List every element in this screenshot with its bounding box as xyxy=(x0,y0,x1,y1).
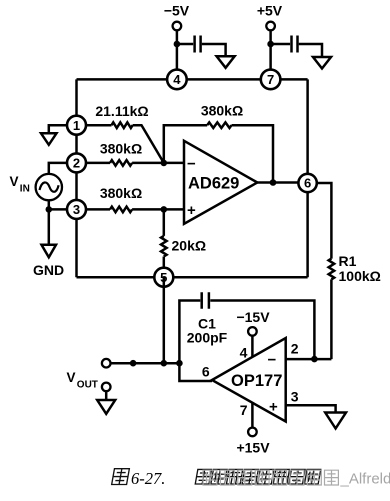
svg-text:+: + xyxy=(187,202,196,219)
ground: pin 1 reference xyxy=(41,133,57,145)
node: output junction dot xyxy=(270,179,277,186)
svg-text:−: − xyxy=(268,352,277,369)
svg-text:100kΩ: 100kΩ xyxy=(339,268,381,284)
svg-text:_Alfreld: _Alfreld xyxy=(340,471,390,488)
wire: pin 6 to R1 column xyxy=(308,183,332,259)
svg-text:OUT: OUT xyxy=(77,380,98,391)
ground: OP177 non-inverting input xyxy=(325,413,346,429)
svg-text:7: 7 xyxy=(267,72,274,87)
wire: junction to bypass cap C-a xyxy=(177,43,193,46)
wire: node B down to 20k xyxy=(163,209,166,236)
svg-text:7: 7 xyxy=(240,402,248,418)
wire: VIN bottom to GND and pin 3 xyxy=(49,200,77,245)
resistor 380k (input -) xyxy=(110,160,132,166)
terminal: probe ground circle xyxy=(102,383,111,392)
ground: +5V bypass xyxy=(313,57,331,69)
wire: VIN top to pin 2 xyxy=(49,163,77,174)
wire: C1 left leg xyxy=(179,301,200,364)
wire: 380k b to node B and op-amp plus input xyxy=(132,208,184,211)
svg-text:+5V: +5V xyxy=(257,3,283,19)
wire: 380k a to node A and op-amp minus input xyxy=(132,162,184,165)
caption figure number glyph xyxy=(112,469,130,485)
node: pin5 column joins VOUT xyxy=(161,360,168,367)
terminal: +5V xyxy=(266,22,275,31)
source VIN sine generator xyxy=(36,174,62,200)
terminal: -15V xyxy=(248,327,257,336)
wire: pin 5 down to VOUT node xyxy=(163,277,166,363)
svg-text:OP177: OP177 xyxy=(231,372,282,390)
resistor R1 xyxy=(329,259,335,280)
wire: feedback resistor to output node xyxy=(232,125,274,182)
svg-text:IN: IN xyxy=(20,184,30,195)
capacitor C1 xyxy=(202,292,209,308)
wire: pin 6 down to pin5 row xyxy=(306,183,309,277)
pin circle 6 xyxy=(298,174,316,192)
svg-text:+15V: +15V xyxy=(236,439,270,455)
wire: -5V terminal to pin 4 xyxy=(176,29,179,79)
wire: right column pin7 rail down to pin 6 xyxy=(306,79,309,183)
wire: bypass cap to ground xyxy=(299,44,322,57)
wire: top supply rail pin4-pin7 xyxy=(77,78,308,81)
wire: probe stem xyxy=(105,391,108,400)
svg-text:200pF: 200pF xyxy=(187,330,228,346)
wire: OP177 pin3 to ground xyxy=(286,405,336,412)
svg-text:3: 3 xyxy=(73,202,80,217)
svg-text:6: 6 xyxy=(304,176,311,191)
wire: R1 to OP177 inverting input row xyxy=(330,279,333,359)
svg-text:−: − xyxy=(187,155,196,172)
node B junction dot xyxy=(161,206,168,213)
op-amp U2 OP177 triangle xyxy=(212,338,286,422)
svg-text:20kΩ: 20kΩ xyxy=(172,238,207,254)
svg-text:380kΩ: 380kΩ xyxy=(100,185,142,201)
svg-text:4: 4 xyxy=(240,345,248,361)
svg-text:2: 2 xyxy=(73,156,80,171)
capacitor: +5V bypass xyxy=(292,36,298,53)
wire: +5V terminal to pin 7 xyxy=(269,29,272,79)
svg-text:AD629: AD629 xyxy=(188,175,239,193)
wire: pin3 to resistor 380k b xyxy=(86,208,111,211)
pin circle 7 xyxy=(261,70,281,90)
svg-text:R1: R1 xyxy=(339,253,357,269)
wire: pin1 to resistor 21.11k xyxy=(86,124,112,127)
wire: 20k to pin 5 xyxy=(163,257,166,278)
wire: C1 right leg xyxy=(210,301,314,360)
wire: pin 1 to ground xyxy=(49,125,68,133)
pin circle 1 xyxy=(67,116,86,135)
terminal: +15V xyxy=(248,428,257,437)
svg-text:−15V: −15V xyxy=(236,309,270,325)
op-amp U1 AD629 triangle xyxy=(184,141,257,224)
svg-text:6-27.: 6-27. xyxy=(131,469,165,488)
wire: -15V supply to OP177 pin 4 xyxy=(251,336,254,357)
resistor 380k (input +) xyxy=(110,207,132,213)
wire: feedback riser from node A xyxy=(164,125,207,163)
ground: -5V bypass xyxy=(217,56,235,68)
svg-text:4: 4 xyxy=(173,72,181,87)
wire: 21.11k diagonal to summing node A xyxy=(133,125,164,163)
resistor 20k xyxy=(161,236,167,257)
caption title pseudo glyphs (black) xyxy=(195,469,320,484)
wire: pin2 to resistor 380k a xyxy=(86,162,111,165)
svg-text:V: V xyxy=(10,174,19,189)
wire: left column rail-pin1-pin2-pin3 down to pin5 row xyxy=(75,79,78,277)
watermark pseudo glyphs (gray) xyxy=(203,470,338,485)
node: +5V bypass junction xyxy=(267,41,274,48)
pin circle 5 xyxy=(154,268,173,287)
wire: bypass cap to ground xyxy=(202,44,226,56)
svg-text:2: 2 xyxy=(291,341,299,357)
wire: OP177 pin 7 to +15V xyxy=(251,403,254,428)
pin circle 3 xyxy=(67,200,86,219)
wire: pin5 row horizontal xyxy=(77,276,308,279)
ground: VIN return xyxy=(42,245,57,257)
terminal: VOUT xyxy=(102,359,111,368)
svg-text:GND: GND xyxy=(33,262,64,278)
node: dot on VOUT wire xyxy=(130,360,137,367)
node: VIN low junction xyxy=(46,206,53,213)
wire: VOUT node row xyxy=(111,363,213,381)
svg-text:V: V xyxy=(67,370,76,385)
node: -5V bypass junction xyxy=(174,41,181,48)
svg-text:+: + xyxy=(269,399,278,416)
pin circle 4 xyxy=(167,70,187,90)
wire: OP177 pin2 row xyxy=(286,358,332,361)
svg-text:3: 3 xyxy=(291,389,299,405)
terminal: -5V xyxy=(173,22,182,31)
node: C1 left leg joins VOUT xyxy=(176,360,183,367)
node A junction dot xyxy=(161,160,168,167)
svg-text:380kΩ: 380kΩ xyxy=(100,141,142,157)
resistor 21.11k xyxy=(112,122,133,128)
svg-text:21.11kΩ: 21.11kΩ xyxy=(95,103,148,119)
capacitor: -5V bypass xyxy=(195,36,201,53)
svg-text:380kΩ: 380kΩ xyxy=(201,103,243,119)
resistor 380k feedback xyxy=(207,122,231,128)
ground: probe xyxy=(97,400,115,414)
svg-text:1: 1 xyxy=(73,118,80,133)
svg-text:6: 6 xyxy=(202,364,210,380)
svg-text:−5V: −5V xyxy=(164,3,190,19)
wire: AD629 output to pin 6 xyxy=(257,181,307,184)
pin circle 2 xyxy=(67,153,86,172)
wire: junction to bypass cap C-b xyxy=(271,43,291,46)
node: C1 joins pin2 row xyxy=(311,356,318,363)
